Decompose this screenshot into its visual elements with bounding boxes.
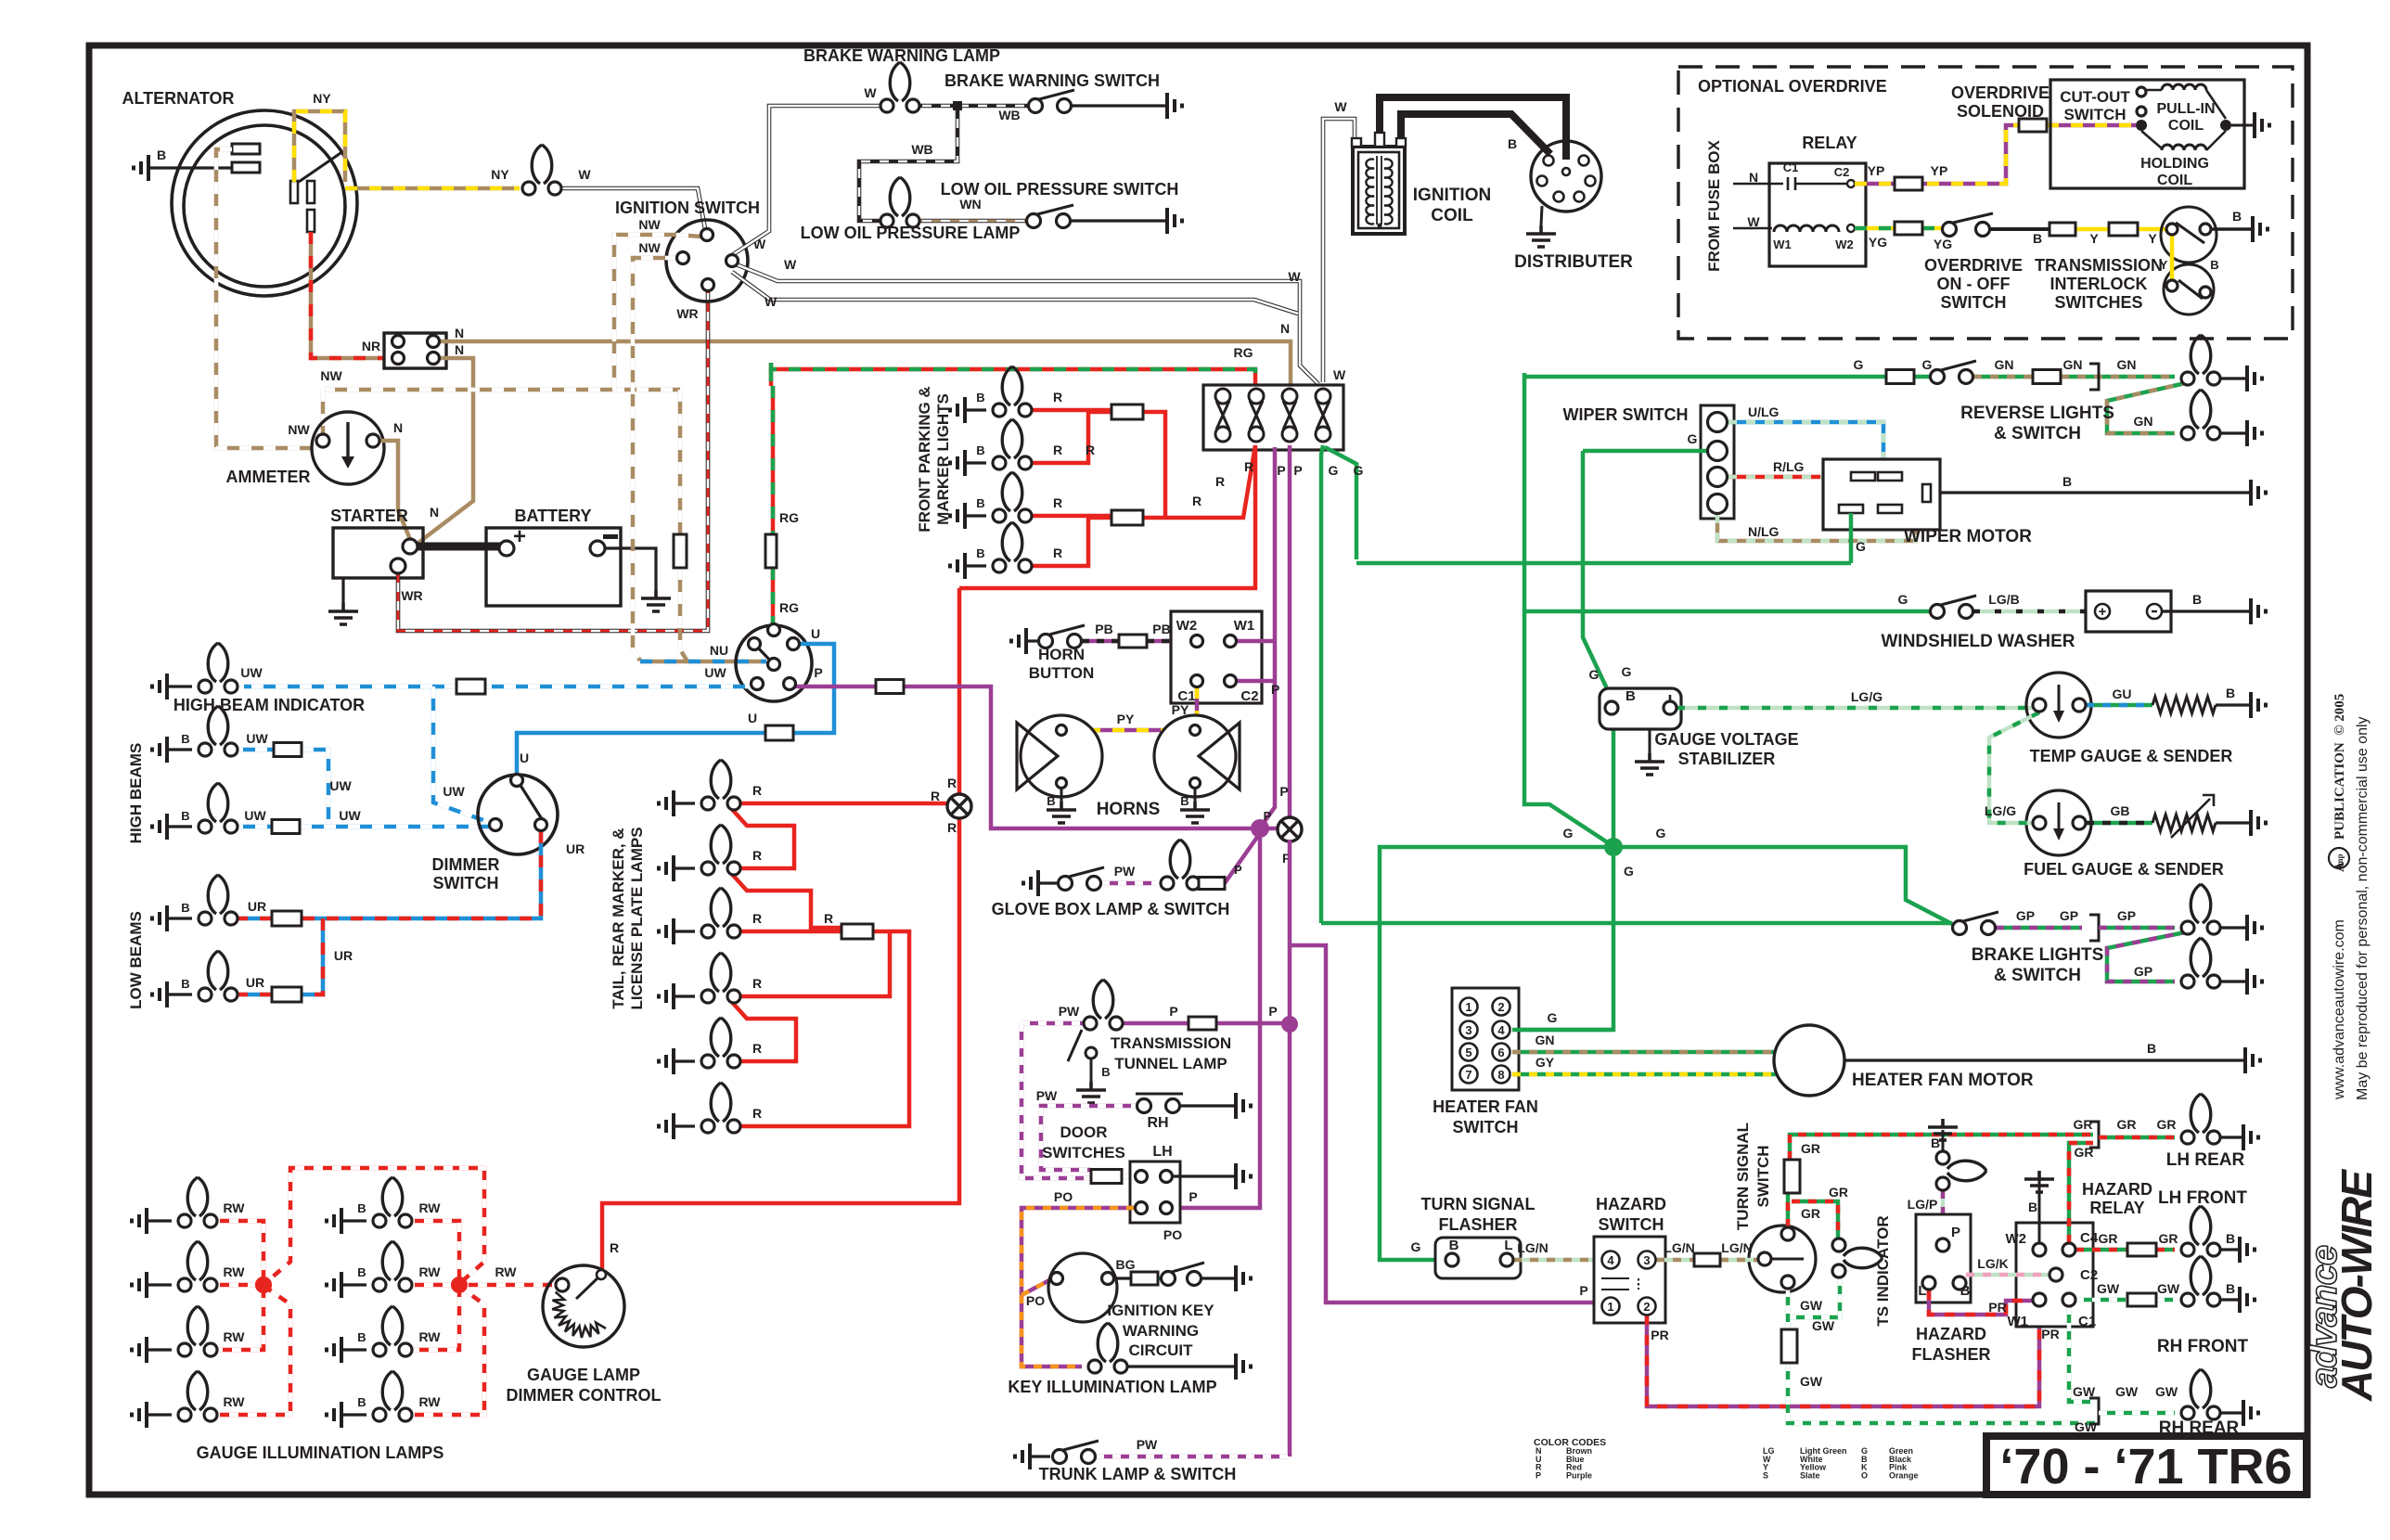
svg-text:G: G [1354,463,1364,478]
svg-text:B: B [357,1201,366,1215]
svg-text:IGNITION KEY: IGNITION KEY [1107,1302,1214,1319]
svg-text:FLASHER: FLASHER [1912,1345,1991,1364]
svg-text:R: R [752,848,762,863]
svg-text:R: R [610,1240,619,1255]
svg-text:+: + [2099,604,2107,620]
svg-text:REVERSE LIGHTS: REVERSE LIGHTS [1960,404,2114,423]
svg-text:UW: UW [443,784,465,799]
svg-text:& SWITCH: & SWITCH [1994,424,2081,443]
svg-text:W: W [1334,99,1347,114]
svg-text:P: P [1268,1004,1277,1019]
svg-text:P: P [1579,1283,1587,1298]
svg-text:B: B [157,148,166,162]
svg-text:LH REAR: LH REAR [2166,1150,2245,1170]
svg-text:B: B [1625,688,1636,704]
svg-text:HIGH BEAM INDICATOR: HIGH BEAM INDICATOR [173,696,365,714]
svg-text:& SWITCH: & SWITCH [1994,966,2081,985]
svg-text:UW: UW [704,665,726,680]
svg-text:YG: YG [1934,237,1952,251]
svg-text:YP: YP [1868,163,1885,178]
svg-text:imp: imp [2335,853,2345,867]
svg-text:B: B [2192,592,2202,607]
svg-text:R: R [824,911,833,926]
svg-text:IGNITION SWITCH: IGNITION SWITCH [615,199,760,217]
svg-text:B: B [976,496,984,510]
svg-text:OPTIONAL OVERDRIVE: OPTIONAL OVERDRIVE [1698,77,1887,96]
svg-text:G: G [1854,357,1864,372]
svg-text:SWITCH: SWITCH [433,874,499,892]
svg-text:FLASHER: FLASHER [1439,1215,1518,1234]
svg-text:RG: RG [779,600,799,615]
svg-text:UW: UW [244,808,266,823]
svg-text:PW: PW [1137,1437,1158,1452]
svg-text:RW: RW [223,1264,245,1279]
svg-text:R/LG: R/LG [1773,459,1805,474]
svg-text:CUT-OUT: CUT-OUT [2060,88,2130,106]
svg-text:G: G [1329,463,1339,478]
svg-text:UW: UW [329,778,352,793]
svg-text:R: R [1086,443,1095,457]
svg-text:TAIL, REAR MARKER, &: TAIL, REAR MARKER, & [610,828,627,1008]
svg-text:G: G [1856,539,1866,554]
svg-text:GN: GN [1536,1033,1555,1047]
svg-text:7: 7 [1465,1068,1471,1082]
svg-text:RG: RG [1234,345,1253,360]
svg-text:N: N [455,326,464,340]
svg-text:www.advanceautowire.com: www.advanceautowire.com [2332,919,2347,1100]
svg-text:B: B [1931,1136,1940,1150]
svg-text:NW: NW [288,422,310,437]
svg-text:2: 2 [1643,1300,1650,1314]
svg-text:RELAY: RELAY [1802,134,1857,152]
svg-text:PB: PB [1152,622,1170,636]
svg-text:LG/N: LG/N [1517,1240,1548,1255]
svg-text:U: U [520,751,529,765]
svg-text:PUBLICATION © 2005: PUBLICATION © 2005 [2332,694,2347,840]
svg-text:1: 1 [1465,1000,1471,1014]
svg-text:U: U [811,626,820,641]
svg-text:3: 3 [1643,1253,1650,1267]
svg-text:‘70 - ‘71 TR6: ‘70 - ‘71 TR6 [1999,1439,2292,1495]
svg-text:R: R [752,1106,762,1121]
svg-text:R: R [1053,545,1062,560]
svg-text:P: P [1271,682,1279,697]
svg-text:C2: C2 [2080,1267,2098,1283]
svg-text:DISTRIBUTER: DISTRIBUTER [1514,252,1633,272]
svg-text:ON - OFF: ON - OFF [1937,275,2011,293]
svg-text:B: B [357,1330,366,1344]
svg-text:B: B [2028,1200,2037,1214]
svg-text:R: R [1053,495,1062,510]
svg-text:LG/G: LG/G [1985,803,2016,818]
svg-text:UW: UW [240,665,263,680]
svg-text:Y: Y [2089,231,2099,246]
svg-text:GR: GR [2099,1231,2118,1246]
svg-text:LOW BEAMS: LOW BEAMS [127,911,145,1009]
svg-text:LICENSE PLATE LAMPS: LICENSE PLATE LAMPS [628,827,646,1009]
svg-text:P: P [1277,463,1285,478]
svg-text:P: P [1536,1470,1541,1480]
svg-text:3: 3 [1465,1023,1471,1037]
svg-text:GAUGE ILLUMINATION LAMPS: GAUGE ILLUMINATION LAMPS [197,1444,444,1462]
svg-text:W: W [864,85,877,100]
svg-text:HAZARD: HAZARD [1916,1325,1986,1343]
svg-text:CIRCUIT: CIRCUIT [1129,1341,1194,1359]
svg-text:LG/N: LG/N [1664,1240,1694,1255]
svg-text:AMMETER: AMMETER [226,468,311,486]
svg-text:Y: Y [2148,231,2157,246]
svg-text:SWITCH: SWITCH [2063,106,2126,123]
svg-text:COIL: COIL [1431,206,1473,225]
svg-text:B: B [2062,474,2072,489]
svg-text:TRANSMISSION: TRANSMISSION [2035,256,2163,275]
svg-text:B: B [976,391,984,404]
svg-text:B: B [181,809,189,823]
svg-text:GR: GR [2159,1231,2178,1246]
svg-text:B: B [181,732,189,746]
svg-text:TRUNK LAMP & SWITCH: TRUNK LAMP & SWITCH [1039,1465,1237,1483]
svg-text:HORNS: HORNS [1097,800,1161,819]
svg-text:5: 5 [1465,1046,1471,1059]
svg-text:P: P [1951,1225,1960,1240]
svg-text:NW: NW [320,368,342,383]
svg-text:P: P [814,665,822,680]
svg-text:C1: C1 [2078,1314,2096,1329]
svg-text:4: 4 [1497,1023,1505,1037]
svg-text:W2: W2 [2006,1231,2027,1247]
svg-text:Slate: Slate [1800,1470,1820,1480]
svg-text:G: G [1688,431,1698,446]
svg-text:R: R [752,1041,762,1056]
svg-text:PY: PY [1117,712,1135,726]
svg-text:FRONT PARKING &: FRONT PARKING & [916,386,933,532]
svg-text:RW: RW [418,1394,441,1409]
svg-text:UR: UR [334,948,353,963]
svg-text:GN: GN [2117,357,2137,372]
svg-text:P: P [1189,1189,1197,1204]
svg-text:Purple: Purple [1566,1470,1592,1480]
svg-text:BATTERY: BATTERY [515,507,592,525]
svg-text:PR: PR [1988,1300,2006,1315]
svg-text:BG: BG [1116,1257,1136,1272]
svg-text:B: B [181,901,189,915]
svg-text:G: G [1898,592,1908,607]
svg-text:GY: GY [1536,1055,1555,1070]
svg-text:B: B [2226,1231,2235,1246]
svg-text:W1: W1 [1234,618,1255,634]
svg-text:STABILIZER: STABILIZER [1678,750,1776,768]
svg-text:RW: RW [223,1394,245,1409]
svg-text:W: W [784,257,797,272]
svg-text:N: N [430,505,439,520]
svg-text:advance: advance [2304,1245,2345,1388]
svg-text:P: P [1234,863,1242,877]
svg-text:U: U [748,711,757,725]
svg-text:U/LG: U/LG [1748,404,1780,419]
svg-text:GR: GR [2075,1145,2094,1160]
svg-text:SWITCH: SWITCH [1754,1145,1772,1207]
svg-text:LH: LH [1152,1144,1172,1160]
svg-text:W2: W2 [1835,237,1854,251]
svg-text:TRANSMISSION: TRANSMISSION [1111,1034,1231,1052]
svg-text:R: R [947,820,957,835]
svg-text:GB: GB [2111,803,2130,818]
svg-text:HAZARD: HAZARD [2082,1180,2152,1199]
svg-text:G: G [1624,864,1634,879]
svg-text:LG/B: LG/B [1988,592,2019,607]
svg-text:YP: YP [1931,163,1948,178]
svg-text:GP: GP [2060,908,2078,923]
svg-text:Orange: Orange [1889,1470,1919,1480]
svg-text:B: B [1449,1238,1459,1253]
svg-text:WIPER SWITCH: WIPER SWITCH [1563,405,1689,424]
svg-text:GW: GW [2115,1384,2139,1399]
svg-text:2: 2 [1497,1000,1504,1014]
svg-text:GN: GN [2134,414,2153,429]
svg-text:6: 6 [1497,1046,1504,1059]
svg-text:4: 4 [1607,1253,1614,1267]
svg-text:PO: PO [1026,1293,1045,1308]
svg-text:LG/G: LG/G [1851,689,1882,704]
svg-text:B: B [181,977,189,991]
svg-text:NW: NW [638,240,661,255]
svg-text:COIL: COIL [2157,173,2192,188]
svg-text:LOW OIL PRESSURE SWITCH: LOW OIL PRESSURE SWITCH [941,180,1179,199]
svg-text:GP: GP [2016,908,2035,923]
svg-text:G: G [1548,1010,1558,1025]
svg-text:INTERLOCK: INTERLOCK [2050,275,2148,293]
svg-text:R: R [1053,390,1062,404]
svg-text:DIMMER: DIMMER [432,855,500,874]
svg-text:RW: RW [418,1329,441,1344]
svg-text:PB: PB [1095,622,1112,636]
svg-text:P: P [1169,1004,1177,1019]
svg-text:LG/N: LG/N [1721,1240,1752,1255]
svg-text:RW: RW [223,1200,245,1215]
svg-text:R: R [1244,459,1253,474]
svg-text:NU: NU [710,643,728,658]
svg-text:TUNNEL LAMP: TUNNEL LAMP [1114,1055,1227,1072]
svg-text:N/LG: N/LG [1748,524,1780,539]
svg-text:BUTTON: BUTTON [1029,664,1095,682]
svg-text:HEATER FAN MOTOR: HEATER FAN MOTOR [1852,1071,2034,1090]
svg-text:LG/K: LG/K [1977,1256,2008,1271]
svg-text:UR: UR [246,975,264,990]
svg-text:MARKER LIGHTS: MARKER LIGHTS [934,393,952,525]
svg-text:HEATER FAN: HEATER FAN [1433,1097,1538,1116]
svg-text:WB: WB [998,108,1020,122]
svg-text:UW: UW [246,731,268,746]
svg-text:B: B [2232,209,2242,224]
svg-text:GW: GW [2097,1281,2120,1296]
svg-text:UR: UR [566,841,585,856]
svg-text:P: P [1293,463,1302,478]
svg-text:NW: NW [638,217,661,232]
svg-text:PW: PW [1114,864,1136,879]
svg-text:SWITCH: SWITCH [1941,293,2007,312]
svg-text:W: W [1747,214,1760,229]
svg-text:PR: PR [1651,1328,1668,1342]
svg-text:L: L [1504,1238,1512,1253]
svg-text:R: R [947,776,957,790]
svg-text:PR: PR [2041,1327,2059,1341]
svg-text:G: G [1563,826,1574,841]
svg-text:IGNITION: IGNITION [1413,186,1491,205]
svg-text:R: R [752,911,762,926]
svg-text:GW: GW [1800,1298,1823,1313]
svg-text:C4: C4 [2080,1230,2099,1246]
svg-text:P: P [1279,784,1288,799]
svg-text:GR: GR [2157,1117,2177,1132]
svg-text:NY: NY [313,91,331,106]
svg-text:B: B [1101,1065,1110,1079]
svg-text:TURN SIGNAL: TURN SIGNAL [1734,1123,1752,1230]
svg-text:WARNING: WARNING [1123,1322,1199,1340]
svg-text:O: O [1861,1470,1868,1480]
svg-text:W: W [1333,367,1346,382]
svg-text:C2: C2 [1240,688,1258,704]
svg-text:RW: RW [223,1329,245,1344]
svg-text:GW: GW [2157,1281,2180,1296]
svg-text:UW: UW [339,808,361,823]
svg-text:TEMP GAUGE & SENDER: TEMP GAUGE & SENDER [2030,747,2233,765]
svg-text:May be reproduced for personal: May be reproduced for personal, non-comm… [2355,716,2371,1100]
svg-text:GLOVE BOX LAMP & SWITCH: GLOVE BOX LAMP & SWITCH [992,900,1230,918]
svg-text:BRAKE WARNING SWITCH: BRAKE WARNING SWITCH [944,71,1160,90]
svg-text:PULL-IN: PULL-IN [2156,101,2215,117]
svg-text:R: R [1192,494,1201,508]
svg-text:PW: PW [1036,1088,1058,1103]
svg-text:WIPER MOTOR: WIPER MOTOR [1904,527,2032,546]
svg-text:B: B [1180,794,1189,808]
svg-text:R: R [1053,443,1062,457]
svg-text:G: G [1922,357,1933,372]
svg-text:GR: GR [1829,1185,1848,1200]
svg-text:LG/P: LG/P [1908,1197,1938,1212]
svg-text:B: B [2226,686,2235,700]
svg-text:W: W [578,167,591,182]
svg-text:B: B [2226,1281,2235,1296]
svg-text:WB: WB [911,142,932,157]
svg-text:YG: YG [1869,235,1887,250]
svg-text:B: B [1508,136,1517,151]
svg-text:B: B [976,546,984,560]
svg-text:PO: PO [1054,1189,1073,1204]
svg-text:R: R [752,976,762,991]
svg-text:R: R [752,783,762,798]
svg-text:R: R [1215,474,1225,489]
svg-text:OVERDRIVE: OVERDRIVE [1951,83,2049,102]
svg-text:RH FRONT: RH FRONT [2157,1337,2249,1356]
svg-text:GP: GP [2134,964,2152,979]
svg-text:OVERDRIVE: OVERDRIVE [1924,256,2023,275]
svg-text:N: N [455,342,464,357]
svg-text:C1: C1 [1783,160,1799,174]
svg-text:B: B [357,1395,366,1409]
svg-text:RW: RW [418,1264,441,1279]
svg-text:FROM FUSE BOX: FROM FUSE BOX [1705,140,1723,272]
svg-text:W1: W1 [2008,1314,2029,1329]
svg-text:GW: GW [2155,1384,2178,1399]
svg-text:TURN SIGNAL: TURN SIGNAL [1421,1195,1536,1213]
svg-text:GN: GN [2063,357,2083,372]
svg-text:WR: WR [676,306,698,321]
svg-text:RW: RW [495,1264,517,1279]
svg-text:DOOR: DOOR [1060,1123,1108,1141]
svg-text:DIMMER CONTROL: DIMMER CONTROL [507,1386,662,1405]
svg-text:GP: GP [2117,908,2136,923]
svg-text:RG: RG [779,510,799,525]
svg-text:STARTER: STARTER [330,507,408,525]
svg-text:W2: W2 [1176,618,1198,634]
svg-text:GW: GW [1812,1318,1835,1333]
svg-text:PW: PW [1059,1004,1080,1019]
svg-text:PO: PO [1163,1227,1182,1242]
svg-text:FUEL GAUGE & SENDER: FUEL GAUGE & SENDER [2024,860,2224,879]
svg-text:RW: RW [418,1200,441,1215]
svg-text:ALTERNATOR: ALTERNATOR [122,89,235,108]
svg-text:BRAKE LIGHTS: BRAKE LIGHTS [1972,945,2104,965]
svg-text:TS INDICATOR: TS INDICATOR [1874,1215,1892,1326]
svg-text:UR: UR [248,899,266,914]
svg-text:HIGH BEAMS: HIGH BEAMS [127,743,145,844]
svg-text:W1: W1 [1773,237,1792,251]
svg-text:G: G [1589,667,1600,682]
svg-text:N: N [1280,321,1290,336]
svg-text:B: B [976,443,984,457]
svg-text:RELAY: RELAY [2089,1199,2144,1217]
svg-text:SWITCHES: SWITCHES [2054,293,2142,312]
svg-text:N: N [393,420,403,435]
svg-text:W: W [765,294,777,309]
svg-text:B: B [2210,258,2218,272]
svg-text:GN: GN [1995,357,2014,372]
svg-text:1: 1 [1607,1300,1613,1314]
svg-text:SWITCH: SWITCH [1453,1118,1519,1136]
svg-text:HOLDING: HOLDING [2140,156,2209,172]
svg-text:B: B [2147,1041,2156,1056]
svg-text:GR: GR [2117,1117,2137,1132]
svg-text:WINDSHIELD WASHER: WINDSHIELD WASHER [1882,632,2075,651]
svg-text:LH FRONT: LH FRONT [2158,1188,2247,1208]
svg-text:SWITCH: SWITCH [1599,1215,1664,1234]
svg-text:RH: RH [1147,1115,1168,1131]
svg-text:GAUGE VOLTAGE: GAUGE VOLTAGE [1654,730,1798,749]
svg-text:G: G [1411,1239,1421,1254]
svg-text:GR: GR [1801,1141,1820,1156]
svg-text:B: B [357,1265,366,1279]
svg-text:NR: NR [362,339,380,353]
svg-text:N: N [1749,170,1758,185]
svg-text:GR: GR [1801,1206,1820,1221]
svg-text:GW: GW [2075,1419,2098,1434]
svg-text:G: G [1656,826,1666,841]
svg-text:C2: C2 [1834,165,1850,179]
svg-text:B: B [2033,231,2042,246]
svg-text:KEY ILLUMINATION LAMP: KEY ILLUMINATION LAMP [1008,1378,1216,1396]
svg-text:R: R [931,789,940,803]
svg-text:G: G [1622,664,1632,679]
svg-text:B: B [1047,794,1055,808]
svg-text:S: S [1763,1470,1768,1480]
svg-text:8: 8 [1497,1068,1504,1082]
svg-text:GAUGE LAMP: GAUGE LAMP [527,1366,640,1384]
svg-text:GU: GU [2113,687,2132,701]
svg-text:SWITCHES: SWITCHES [1042,1144,1125,1161]
svg-text:COIL: COIL [2168,118,2204,134]
svg-text:HAZARD: HAZARD [1596,1195,1666,1213]
svg-text:WN: WN [959,197,981,212]
